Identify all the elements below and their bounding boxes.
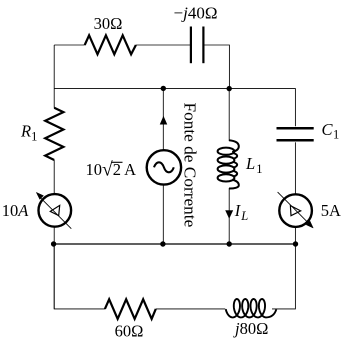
resistor R1 xyxy=(45,108,63,160)
wire left vertical lower xyxy=(53,226,55,308)
node dot rail lower 2 xyxy=(160,241,165,246)
wire top right of capacitor to corner and down xyxy=(204,45,229,88)
arrow up middle source xyxy=(160,117,167,125)
resistor 30ohm xyxy=(85,35,136,54)
capacitor -j40 plate right xyxy=(202,27,204,64)
5A internal arrowhead xyxy=(290,206,300,216)
wire middle branch lower xyxy=(162,185,164,244)
10A internal arrowhead xyxy=(50,205,59,215)
wire bottom right xyxy=(272,244,295,309)
source circle 10A xyxy=(39,194,72,227)
node dot rail lower 4 xyxy=(293,241,298,246)
wire rail upper right to C1 xyxy=(229,89,295,127)
wire top-left horizontal xyxy=(54,44,84,46)
source circle middle xyxy=(147,150,181,184)
wire left vertical upper xyxy=(53,45,55,108)
svg-text:5A: 5A xyxy=(321,201,341,220)
node dot rail upper right xyxy=(227,86,232,91)
node dot rail lower 3 xyxy=(227,241,232,246)
inductor L1 coil hooks xyxy=(229,140,239,152)
capacitor C1 top plate xyxy=(277,127,314,130)
wire left vertical mid xyxy=(53,160,55,194)
wire rail lower xyxy=(53,243,295,245)
wire bottom left xyxy=(54,244,105,309)
wire middle branch upper xyxy=(162,88,164,150)
wire bottom middle xyxy=(156,308,226,310)
svg-text:j80Ω: j80Ω xyxy=(233,319,268,338)
sine wave inside source xyxy=(154,162,174,172)
svg-text:60Ω: 60Ω xyxy=(115,322,144,341)
wire C1 to 5A xyxy=(294,142,296,194)
wire top between resistor and capacitor xyxy=(136,44,190,46)
svg-text:Fonte de Corrente: Fonte de Corrente xyxy=(181,103,200,228)
source circle 5A xyxy=(279,194,312,227)
svg-text:10A: 10A xyxy=(2,201,30,220)
wire 5A to rail xyxy=(294,227,296,244)
10A diagonal arrowhead xyxy=(36,192,43,199)
svg-text:−j40Ω: −j40Ω xyxy=(174,3,218,22)
capacitor -j40 plate left xyxy=(190,27,192,64)
5A diagonal arrowhead xyxy=(306,221,313,228)
inductor j80 coil xyxy=(226,299,277,317)
node dot rail upper left xyxy=(161,86,166,91)
svg-text:30Ω: 30Ω xyxy=(94,14,123,33)
resistor 60ohm xyxy=(105,299,156,319)
wire rail upper xyxy=(54,87,229,89)
wire L1 branch lower xyxy=(228,188,230,244)
wire L1 branch upper xyxy=(228,89,230,141)
node dot rail lower 1 xyxy=(51,241,56,246)
5A diagonal arrow line xyxy=(278,192,310,224)
svg-text:10√2 A: 10√2 A xyxy=(86,160,137,181)
10A diagonal arrow line xyxy=(40,197,71,229)
inductor L1 coil loops xyxy=(218,148,235,155)
capacitor C1 bottom plate xyxy=(277,139,314,142)
radical vinculum xyxy=(111,161,122,163)
arrow down I_L xyxy=(226,211,233,219)
